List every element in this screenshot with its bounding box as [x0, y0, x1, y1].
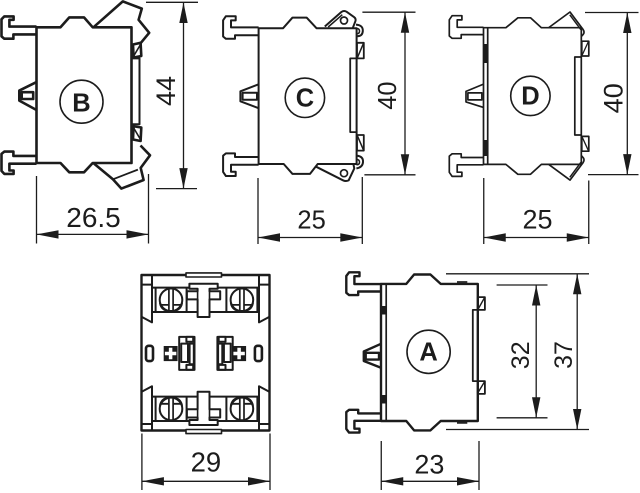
triangle flag inner edge [570, 15, 581, 30]
bottom-right notch block [582, 136, 589, 151]
top extension tick [146, 1, 198, 3]
svg-text:25: 25 [297, 206, 325, 234]
arrow down 44 [179, 168, 187, 189]
svg-text:37: 37 [550, 341, 578, 369]
right inset bracket [473, 310, 478, 381]
svg-text:32: 32 [507, 341, 535, 369]
bottom-left mounting clip [346, 410, 381, 433]
bottom-left mounting clip [223, 153, 259, 176]
right extension line [478, 441, 480, 490]
right inset bracket [350, 58, 356, 132]
dimension 25 (horizontal, below D) [484, 178, 589, 244]
arrow left 29 [142, 477, 164, 485]
svg-text:A: A [419, 339, 437, 367]
arrow down 37 [573, 409, 581, 430]
top-right notch block [582, 41, 589, 56]
right extension line [269, 434, 271, 491]
dimension line 26.5 [37, 233, 149, 235]
svg-text:29: 29 [191, 447, 222, 478]
pivot tab inner fold line [328, 15, 342, 27]
left edge filler bottom [381, 395, 386, 404]
bottom-right hook [356, 156, 363, 169]
right plus box [232, 346, 246, 361]
svg-text:C: C [296, 85, 314, 113]
dimension 26.5 (horizontal, below B) [37, 174, 149, 244]
bottom lip [186, 430, 222, 434]
left wedge tab inner window [468, 93, 482, 100]
top-left mounting clip [223, 16, 259, 39]
bottom-right flag inner edge [113, 170, 138, 180]
bottom-right corner wedge [259, 386, 270, 430]
right oval slot [255, 346, 262, 361]
top-right screw [231, 289, 254, 312]
svg-text:25: 25 [522, 205, 552, 235]
arrow left 25 D [484, 233, 506, 241]
arrow right 26.5 [127, 230, 149, 238]
top cross inner lines [198, 291, 210, 299]
dimension line 23 [381, 480, 479, 482]
arrow up 40 D [623, 13, 631, 34]
left edge filler top [381, 306, 386, 315]
left wedge tab inner window [22, 92, 34, 99]
arrow left 26.5 [37, 230, 59, 238]
right inset bracket [575, 57, 582, 135]
svg-text:26.5: 26.5 [66, 202, 121, 233]
top-right notch diagonal [478, 298, 484, 309]
bottom extension tick [588, 174, 639, 176]
left edge filler bottom [484, 140, 488, 156]
circle label C [285, 78, 324, 117]
body outline with bumps [259, 18, 357, 174]
left wedge tab [466, 84, 484, 107]
dimension line 32 [535, 285, 537, 418]
bottom extension tick [156, 188, 197, 190]
bottom-right notch diagonal [478, 382, 484, 392]
bottom-right notch diagonal [582, 137, 588, 150]
dimension line 25 C [258, 237, 362, 239]
bottom-right notch block [478, 381, 485, 394]
dimension line 40 D [626, 13, 628, 175]
circle label A [407, 330, 450, 373]
dimension 40 (vertical, right of D) [585, 13, 639, 175]
top-right notch diagonal [133, 44, 140, 57]
dimension 44 (vertical, right of B) [146, 2, 198, 188]
left terminal [179, 337, 194, 370]
arrow down 40 D [623, 154, 631, 175]
top-right notch diagonal [357, 44, 363, 58]
left plus box [164, 346, 178, 361]
dimension 25 (horizontal, below C) [258, 177, 362, 244]
left extension line [257, 178, 259, 244]
arrow up 37 [573, 274, 581, 295]
left extension line [36, 176, 38, 244]
bottom-right triangle flag [549, 156, 584, 181]
top extension tick [362, 11, 415, 13]
svg-text:44: 44 [151, 76, 181, 106]
bottom extension tick [364, 174, 415, 176]
bottom-right notch diagonal [357, 136, 363, 150]
top extension tick 37 [446, 273, 589, 275]
top screw box verticals [156, 288, 258, 312]
dimension line 44 [183, 3, 185, 189]
bottom-right screw [231, 398, 254, 421]
bottom-left mounting clip [449, 154, 483, 177]
top edge lip [457, 281, 467, 283]
dimension line 25 D [484, 237, 589, 239]
arrow up 32 [532, 285, 540, 306]
arrow right 29 [248, 477, 270, 485]
top-left screw [160, 289, 183, 312]
bottom extension tick 37 [446, 429, 589, 431]
top-right triangle flag [549, 12, 584, 37]
bottom-left corner wedge [142, 386, 153, 430]
top-right hook [356, 25, 363, 37]
top band frame lines [152, 288, 259, 312]
dimension 29 (horizontal, below front view) [142, 434, 270, 491]
pivot hole bottom [341, 170, 348, 177]
top-left mounting clip [2, 16, 37, 38]
svg-text:D: D [521, 83, 539, 111]
bottom-right notch block [357, 135, 364, 151]
bottom-right pivot tab [315, 164, 354, 181]
top-right notch block [357, 43, 364, 59]
body outline with bumps [381, 275, 478, 431]
bottom-right flag lever [94, 146, 150, 189]
inner left edge line [385, 284, 387, 421]
arrow up 40 C [401, 12, 409, 33]
left extension line [141, 434, 143, 491]
bottom extension tick 32 [497, 417, 548, 419]
bottom center cross [187, 392, 220, 425]
pivot hole top [341, 17, 348, 24]
bottom-left screw [160, 398, 183, 421]
left edge filler top [484, 44, 488, 63]
bottom cross inner lines [198, 409, 210, 417]
outer housing rectangle [142, 275, 270, 431]
svg-text:40: 40 [599, 83, 629, 113]
bottom edge lip [457, 422, 467, 424]
dimension 37 (vertical, right of A) [446, 274, 589, 430]
bottom-left mounting clip [2, 152, 37, 174]
bottom triangle flag inner edge [570, 163, 581, 178]
right plus mark [233, 348, 244, 360]
bottom-right hook inner [356, 159, 359, 165]
svg-text:23: 23 [414, 450, 444, 480]
top-right corner wedge [259, 276, 270, 323]
left extension line [380, 441, 382, 490]
inner left edge line [487, 28, 489, 165]
arrow right 23 [457, 477, 479, 485]
top-right notch diagonal [582, 42, 588, 55]
top-right notch block [478, 297, 485, 310]
right terminal [217, 337, 232, 370]
top-right pivot tab [325, 11, 356, 28]
left wedge tab inner window [243, 93, 257, 100]
dimension line 29 [142, 480, 270, 482]
dimension 23 (horizontal, below A) [381, 441, 479, 490]
arrow left 25 C [258, 233, 280, 241]
left wedge tab [19, 82, 36, 110]
top-right hook inner [356, 28, 359, 34]
bottom-right notch block [133, 126, 141, 141]
left extension line [483, 178, 485, 244]
circle label D [511, 76, 550, 115]
top lip [186, 273, 222, 277]
arrow left 23 [381, 477, 403, 485]
top extension tick 32 [497, 284, 548, 286]
top-right notch block [133, 43, 141, 58]
bottom band frame lines [152, 397, 259, 421]
bottom-right notch diagonal [133, 128, 140, 141]
left wedge tab [240, 84, 258, 108]
dimension 32 (vertical, right of A) [497, 285, 548, 418]
left wedge tab inner window [366, 353, 379, 360]
top extension tick [585, 12, 639, 14]
arrow right 25 D [567, 233, 589, 241]
dimension line 37 [576, 274, 578, 430]
arrow right 25 C [340, 233, 362, 241]
svg-text:B: B [72, 89, 90, 117]
dimension line 40 [404, 12, 406, 175]
arrow up 44 [179, 3, 187, 24]
top-left mounting clip [449, 16, 483, 39]
arrow down 40 C [401, 154, 409, 175]
dimension 40 (vertical, right of C) [362, 12, 415, 175]
right rail [132, 58, 140, 124]
arrow down 32 [532, 397, 540, 418]
body outline with top/bottom bumps [37, 17, 132, 172]
left oval slot [146, 346, 153, 361]
top-right flag lever [94, 1, 149, 43]
left plus mark [165, 348, 176, 360]
top-left corner wedge [142, 276, 153, 323]
right extension line [148, 174, 150, 244]
bottom screw box verticals [156, 397, 258, 421]
right extension line [588, 181, 590, 245]
body outline with bumps [484, 18, 582, 175]
left wedge tab [364, 344, 381, 368]
right extension line [361, 177, 363, 244]
circle label B [60, 80, 103, 123]
top center cross [187, 284, 220, 317]
top-left mounting clip [346, 272, 381, 295]
svg-text:40: 40 [374, 81, 402, 109]
